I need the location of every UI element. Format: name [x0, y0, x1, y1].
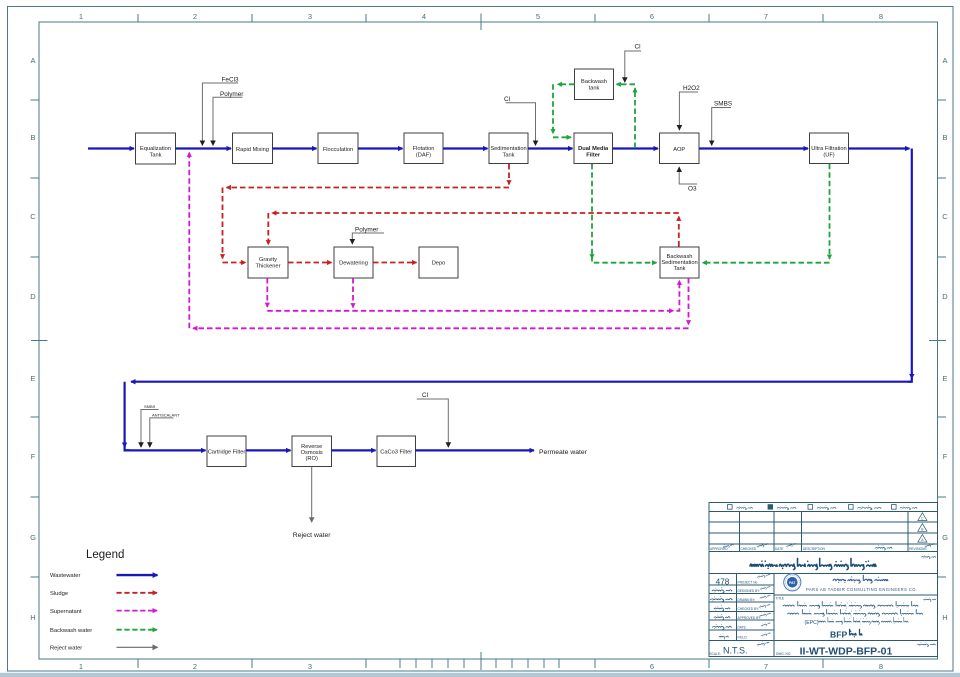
svg-text:PARS AB TADBIR CONSULTING ENGI: PARS AB TADBIR CONSULTING ENGINEERS CO.: [806, 587, 917, 592]
sludge lines (red dashed): [223, 164, 679, 263]
legend sludge sample: [117, 592, 158, 594]
svg-text:FIELD:: FIELD:: [738, 636, 748, 640]
legend supernatant sample: [117, 610, 158, 612]
wire Sedimentation Tank blowdown drop: [508, 164, 510, 185]
svg-text:2: 2: [193, 12, 197, 21]
wire Ultra Filtration to right riser: [849, 147, 910, 149]
svg-text:SCALE:: SCALE:: [710, 652, 721, 656]
reject water line from RO: [311, 467, 313, 523]
svg-text:(UF): (UF): [823, 153, 834, 159]
box Backwash Sedimentation Tank: [660, 247, 699, 278]
svg-text:DESIGNED BY:: DESIGNED BY:: [738, 589, 761, 593]
wire backwash sludge header leftward: [272, 212, 679, 214]
svg-text:Thickener: Thickener: [256, 264, 281, 270]
svg-text:Dewatering: Dewatering: [339, 261, 368, 267]
chemical dosing lines (black/gray): [141, 51, 731, 447]
svg-text:Cl: Cl: [504, 96, 510, 103]
svg-text:Supernatant: Supernatant: [50, 609, 82, 615]
chemical labels: [220, 44, 732, 400]
svg-text:Backwash: Backwash: [581, 79, 607, 85]
revision header labels: [710, 547, 927, 551]
svg-text:Dual Media: Dual Media: [578, 146, 609, 152]
wire Cartridge Filter to Reverse Osmosis: [246, 449, 291, 451]
wire E-row return leftward: [131, 381, 912, 383]
wire feed into Backwash tank: [617, 83, 636, 85]
wire inlet to Equalization Tank: [88, 147, 134, 149]
svg-text:PROJECT No: PROJECT No: [738, 581, 758, 585]
legend wastewater sample: [117, 574, 158, 576]
svg-text:DRAWN BY:: DRAWN BY:: [738, 598, 756, 602]
wire supernatant return leftward: [193, 327, 689, 329]
revision triangles C B A: [918, 513, 927, 542]
dosing Polymer (rapid mixing): [213, 97, 243, 145]
box Dual Media Filter: [574, 133, 613, 164]
approval checkboxes row: [728, 505, 897, 510]
svg-text:E: E: [30, 374, 35, 383]
dosing SMBS (RO feed): [141, 410, 159, 448]
wire backwash drop: [552, 84, 554, 133]
svg-text:A: A: [30, 56, 35, 65]
svg-text:6: 6: [650, 12, 654, 21]
title block: [709, 502, 938, 656]
process boxes: [136, 69, 849, 467]
svg-text:Cartridge Filter: Cartridge Filter: [208, 450, 246, 456]
svg-text:FeCl3: FeCl3: [222, 77, 239, 84]
svg-text:Cl: Cl: [635, 44, 641, 51]
svg-text:4: 4: [422, 12, 426, 21]
svg-text:Backwash water: Backwash water: [50, 628, 92, 634]
svg-text:Rapid Mixing: Rapid Mixing: [236, 147, 269, 153]
svg-text:Tank: Tank: [502, 153, 514, 159]
svg-text:DESCRIPTION: DESCRIPTION: [803, 547, 825, 551]
svg-text:Flocculation: Flocculation: [323, 147, 353, 153]
wire Backwash tank outlet: [558, 83, 575, 85]
svg-text:Equalization: Equalization: [140, 146, 171, 152]
svg-text:F: F: [943, 452, 948, 461]
svg-text:Ultra Filtration: Ultra Filtration: [811, 146, 846, 152]
wire Dual Media Filter washdown to Backwash Sedimentation Tank: [591, 164, 593, 259]
svg-text:A: A: [942, 56, 947, 65]
wire Rapid Mixing to Flocculation: [273, 147, 317, 149]
legend backwash water sample: [117, 629, 158, 631]
box CaCo3 Filter: [377, 436, 416, 467]
svg-text:SMBS: SMBS: [144, 404, 156, 409]
svg-text:E: E: [942, 374, 947, 383]
svg-text:APPROVED: APPROVED: [710, 547, 728, 551]
wire backwash sludge down into Gravity Thickener top: [267, 213, 269, 245]
box Equalization Tank: [136, 133, 176, 164]
svg-text:7: 7: [764, 662, 768, 671]
consultant names: [833, 575, 888, 583]
wire sludge drop to thickener level: [222, 188, 224, 259]
dosing Polymer (dewatering): [352, 233, 384, 244]
wire left riser down to F-row: [123, 382, 125, 447]
svg-text:B: B: [30, 133, 35, 142]
box Cartridge Filter: [207, 436, 246, 467]
svg-text:Gravity: Gravity: [259, 257, 277, 263]
client row: karfarma label and client name: [922, 555, 936, 559]
wire Equalization Tank to Rapid Mixing: [176, 147, 232, 149]
svg-text:Polymer: Polymer: [220, 91, 244, 98]
svg-text:3: 3: [308, 12, 312, 21]
box Reverse Osmosis (RO): [292, 436, 332, 467]
wire Sedimentation Tank to Dual Media Filter: [528, 147, 573, 149]
svg-text:Permeate water: Permeate water: [539, 449, 588, 456]
svg-text:6: 6: [650, 662, 654, 671]
box Depo: [419, 247, 458, 278]
svg-text:Cl: Cl: [422, 392, 428, 399]
svg-text:7: 7: [764, 12, 768, 21]
persian checkbox captions: [737, 506, 918, 510]
box Backwash tank: [575, 69, 614, 100]
svg-text:1: 1: [79, 662, 83, 671]
dosing Cl (sedimentation outlet): [506, 103, 536, 145]
supernatant lines (magenta dashed): [189, 153, 688, 329]
dosing Cl (backwash tank line): [625, 51, 641, 82]
svg-text:BFP: BFP: [830, 629, 847, 639]
wire Gravity Thickener supernatant drop: [266, 278, 268, 307]
dosing O3 (AOP bottom): [679, 167, 697, 184]
svg-text:2: 2: [193, 662, 197, 671]
wire Backwash Sedimentation Tank sludge riser: [678, 217, 680, 247]
wire sludge header leftward: [227, 187, 510, 189]
wire main line feed riser: [634, 88, 636, 148]
svg-text:(EPC): (EPC): [805, 620, 819, 626]
svg-text:Depo: Depo: [432, 261, 446, 267]
svg-text:8: 8: [879, 662, 883, 671]
svg-text:DWG. NO.: DWG. NO.: [776, 652, 791, 656]
backwash water lines (green dashed): [553, 84, 830, 262]
svg-text:TITLE: TITLE: [776, 597, 785, 601]
svg-text:478: 478: [716, 577, 730, 586]
svg-text:N.T.S.: N.T.S.: [723, 645, 748, 655]
svg-text:G: G: [30, 533, 36, 542]
wire backwash into Dual Media Filter: [553, 136, 571, 138]
svg-text:Sedimentation: Sedimentation: [490, 146, 526, 152]
svg-text:ANTISCALANT: ANTISCALANT: [152, 412, 180, 417]
svg-text:D: D: [30, 292, 36, 301]
svg-text:Reject water: Reject water: [50, 645, 82, 651]
wire Reverse Osmosis to CaCo3 Filter: [332, 449, 376, 451]
svg-text:1: 1: [79, 12, 83, 21]
wire Dewatering to Depo: [373, 262, 417, 264]
svg-text:O3: O3: [688, 186, 697, 193]
wire right riser down: [911, 149, 913, 379]
box Flotation (DAF): [404, 133, 443, 164]
svg-text:F: F: [31, 452, 36, 461]
wire collector up into Backwash Sedimentation Tank: [677, 281, 680, 311]
wire sludge into Gravity Thickener: [223, 262, 246, 264]
wire Flotation to Sedimentation Tank: [443, 147, 488, 149]
logo PAT: [784, 574, 801, 591]
svg-text:5: 5: [536, 12, 540, 21]
dosing SMBS (after AOP): [712, 108, 731, 146]
wire Gravity Thickener to Dewatering: [288, 262, 332, 264]
wire Backwash Sedimentation Tank supernatant drop: [688, 278, 690, 325]
svg-text:Sludge: Sludge: [50, 591, 68, 597]
box Ultra Filtration (UF): [810, 133, 849, 164]
dosing ANTISCALANT (RO feed): [150, 418, 174, 447]
box Rapid Mixing: [233, 133, 273, 164]
dosing FeCl3: [202, 83, 238, 145]
svg-text:Polymer: Polymer: [355, 226, 379, 233]
svg-text:tank: tank: [589, 85, 600, 91]
dosing H2O2 (AOP): [679, 92, 698, 130]
svg-text:Legend: Legend: [86, 549, 124, 561]
box Gravity Thickener: [248, 247, 288, 278]
dosing Cl (permeate): [417, 399, 449, 447]
svg-text:G: G: [942, 533, 948, 542]
svg-text:(RO): (RO): [306, 456, 318, 462]
wire supernatant collector rightward: [267, 310, 673, 312]
wire UF washwater into Backwash Sedimentation Tank: [703, 262, 830, 264]
box Flocculation: [318, 133, 358, 164]
wire Ultra Filtration washdown: [829, 164, 831, 259]
svg-text:C: C: [942, 212, 948, 221]
svg-text:Tank: Tank: [673, 266, 685, 272]
svg-text:Wastewater: Wastewater: [50, 573, 80, 579]
wastewater main line (blue): [88, 149, 912, 451]
svg-text:Filter: Filter: [586, 153, 601, 159]
svg-text:REVISIONS: REVISIONS: [909, 547, 926, 551]
svg-text:C: C: [30, 212, 36, 221]
bottom paper edge strip: [0, 673, 960, 677]
svg-text:CHECKED: CHECKED: [741, 547, 757, 551]
svg-text:Flotation: Flotation: [413, 146, 435, 152]
svg-text:H: H: [30, 613, 35, 622]
svg-text:PAT: PAT: [789, 581, 796, 585]
wire supernatant riser to head of works: [188, 153, 190, 329]
svg-text:H: H: [942, 613, 947, 622]
svg-text:CHECKED BY:: CHECKED BY:: [738, 607, 760, 611]
svg-text:II-WT-WDP-BFP-01: II-WT-WDP-BFP-01: [800, 646, 893, 658]
svg-text:SMBS: SMBS: [714, 101, 732, 108]
wire Dual Media Filter to AOP: [613, 147, 659, 149]
svg-text:DATE:: DATE:: [738, 625, 747, 629]
wire CaCo3 Filter to permeate outlet: [416, 449, 535, 451]
svg-text:Tank: Tank: [149, 153, 161, 159]
wire Flocculation to Flotation: [358, 147, 403, 149]
svg-text:APPROVED BY:: APPROVED BY:: [738, 616, 762, 620]
box AOP: [660, 133, 700, 164]
svg-text:Reject water: Reject water: [293, 532, 332, 539]
svg-text:3: 3: [308, 662, 312, 671]
svg-text:(DAF): (DAF): [416, 153, 431, 159]
wire Dewatering supernatant drop: [352, 278, 354, 308]
svg-text:B: B: [942, 133, 947, 142]
svg-text:AOP: AOP: [673, 147, 685, 153]
wire AOP to Ultra Filtration: [699, 147, 808, 149]
svg-text:8: 8: [879, 12, 883, 21]
svg-text:CaCo3 Filter: CaCo3 Filter: [380, 450, 412, 456]
box Dewatering: [334, 247, 373, 278]
svg-text:H2O2: H2O2: [683, 85, 700, 92]
svg-text:DATE: DATE: [775, 547, 783, 551]
wire to Cartridge Filter: [125, 449, 206, 451]
box Sedimentation Tank: [489, 133, 528, 164]
legend reject water sample: [117, 646, 158, 648]
svg-text:D: D: [942, 292, 948, 301]
